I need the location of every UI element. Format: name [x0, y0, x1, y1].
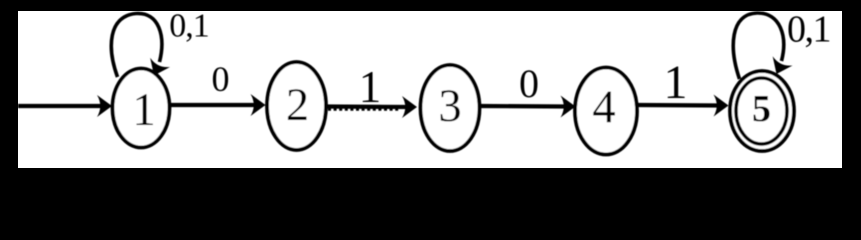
svg-text:0,1: 0,1	[787, 9, 830, 51]
start arrowhead	[97, 95, 112, 117]
svg-text:1: 1	[664, 56, 688, 109]
start arrow wire	[18, 104, 103, 108]
svg-text:1: 1	[132, 85, 155, 136]
state 3 circle	[421, 65, 480, 151]
self-loop 5 arrowhead	[767, 56, 793, 78]
arrowhead into 2	[251, 94, 266, 116]
dotted artifact under wire 2 to 3	[328, 108, 399, 110]
state 1 circle	[113, 69, 170, 148]
self-loop 1 arrowhead	[144, 58, 170, 80]
state 2 circle	[267, 62, 326, 150]
svg-text:4: 4	[592, 82, 615, 133]
state 5 outer circle	[730, 71, 794, 151]
frame background	[0, 0, 861, 181]
arrowhead into 5	[714, 95, 729, 117]
state 5 inner circle	[736, 78, 787, 144]
svg-text:0: 0	[519, 61, 539, 106]
svg-text:0: 0	[212, 59, 230, 99]
wire 4 to 5	[637, 103, 721, 108]
self-loop on 1	[111, 13, 161, 77]
svg-text:1: 1	[359, 62, 382, 112]
svg-text:5: 5	[752, 88, 771, 130]
white canvas	[18, 11, 842, 168]
arrowhead into 4	[561, 96, 576, 118]
state 4 circle	[575, 68, 637, 155]
svg-text:3: 3	[438, 81, 461, 132]
wire 3 to 4	[479, 104, 566, 109]
svg-text:2: 2	[286, 80, 309, 131]
wire 2 to 3	[326, 104, 409, 109]
self-loop on 5	[733, 13, 783, 79]
svg-text:0,1: 0,1	[169, 8, 209, 45]
wire 1 to 2	[169, 103, 258, 107]
arrowhead into 3	[402, 96, 417, 118]
